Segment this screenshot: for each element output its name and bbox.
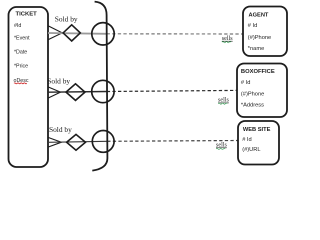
entity WEBSITE box	[238, 121, 279, 165]
grammar squiggle sells 1	[222, 42, 231, 43]
svg-text:*Event: *Event	[14, 36, 30, 42]
svg-text:BOXOFFICE: BOXOFFICE	[241, 69, 275, 75]
svg-text:sells: sells	[222, 36, 233, 42]
svg-text:(#)Phone: (#)Phone	[241, 91, 264, 97]
wire solid row 2	[48, 91, 107, 94]
arc junction circle 2	[92, 80, 114, 102]
wire dashed row 2	[107, 90, 237, 91]
svg-text:# Id: # Id	[248, 23, 257, 29]
svg-text:#Id: #Id	[14, 23, 21, 29]
exclusive arc	[92, 2, 107, 171]
spellcheck squiggle under Desc	[14, 82, 27, 85]
wire dashed row 1	[107, 33, 243, 35]
wire solid row 1	[48, 32, 107, 35]
svg-text:(#)Phone: (#)Phone	[248, 35, 271, 41]
crow's foot 2	[48, 87, 61, 98]
entity AGENT box	[243, 7, 287, 57]
svg-text:Sold by: Sold by	[47, 77, 70, 86]
relationship diamond Sold by 3	[67, 134, 86, 150]
svg-text:*Date: *Date	[14, 50, 27, 56]
relationship diamond Sold by 1	[63, 25, 80, 41]
svg-text:TICKET: TICKET	[16, 12, 38, 18]
svg-text:# Id: # Id	[241, 80, 251, 86]
svg-text:*name: *name	[248, 46, 264, 52]
wire dashed row 3	[107, 140, 238, 143]
svg-text:# Id: # Id	[242, 137, 252, 143]
svg-text:Sold by: Sold by	[49, 125, 72, 134]
svg-text:sells: sells	[218, 98, 229, 104]
grammar squiggle sells 2	[218, 103, 227, 104]
svg-text:*Price: *Price	[14, 63, 28, 69]
svg-text:WEB SITE: WEB SITE	[243, 127, 271, 133]
svg-text:(#)URL: (#)URL	[242, 147, 260, 153]
svg-text:Sold by: Sold by	[55, 15, 78, 24]
svg-text:AGENT: AGENT	[249, 12, 269, 18]
entity BOXOFFICE box	[237, 64, 287, 118]
arc junction circle 1	[92, 23, 114, 45]
crow's foot 3	[48, 137, 61, 147]
svg-text:sells: sells	[216, 143, 227, 149]
crow's foot 1	[48, 26, 62, 40]
svg-text:*Address: *Address	[241, 102, 264, 108]
entity TICKET box	[9, 7, 49, 167]
wire solid row 3	[48, 141, 107, 142]
arc junction circle 3	[92, 131, 114, 153]
relationship diamond Sold by 2	[66, 84, 85, 101]
grammar squiggle sells 3	[216, 148, 225, 149]
